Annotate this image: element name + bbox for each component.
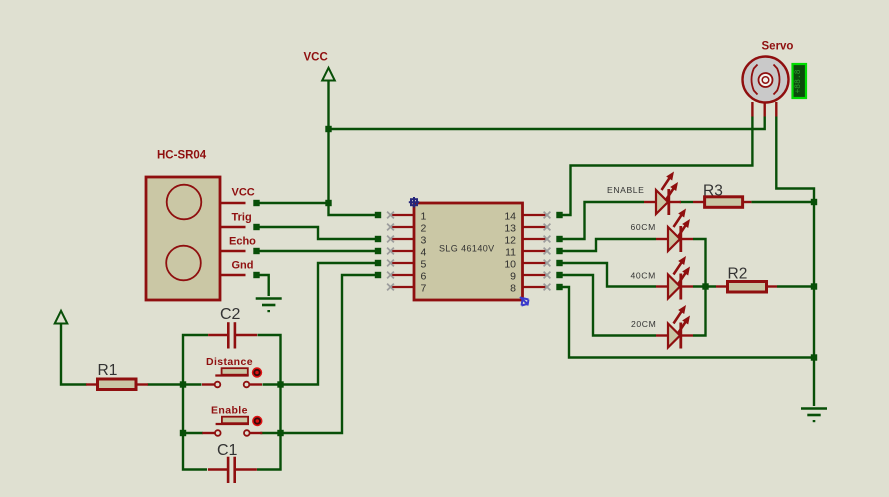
svg-text:R3: R3 [703,183,723,200]
svg-text:R1: R1 [98,362,118,379]
svg-text:8: 8 [510,283,516,295]
svg-text:40CM: 40CM [631,271,656,281]
svg-text:12: 12 [504,235,516,247]
svg-text:ENABLE: ENABLE [607,185,645,195]
svg-text:HC-SR04: HC-SR04 [157,150,207,162]
svg-text:R2: R2 [728,266,748,283]
svg-text:Trig: Trig [232,212,252,224]
svg-text:14: 14 [504,211,516,223]
svg-text:5: 5 [421,259,427,271]
svg-text:3: 3 [421,235,427,247]
svg-text:13: 13 [504,223,516,235]
svg-text:Servo: Servo [762,41,794,53]
svg-text:C2: C2 [220,306,241,323]
svg-text:60CM: 60CM [631,222,656,232]
svg-text:Gnd: Gnd [232,260,254,272]
svg-text:C1: C1 [217,442,238,459]
svg-text:11: 11 [505,247,516,259]
svg-text:VCC: VCC [232,187,255,199]
svg-text:VCC: VCC [304,52,328,64]
svg-text:9: 9 [510,271,516,283]
svg-text:10: 10 [504,259,516,271]
svg-text:Distance: Distance [206,356,253,368]
svg-text:1: 1 [421,211,427,223]
svg-text:2: 2 [421,223,427,235]
svg-text:Enable: Enable [211,405,248,417]
svg-text:20CM: 20CM [631,319,656,329]
svg-text:6: 6 [421,271,427,283]
svg-text:Echo: Echo [229,236,256,248]
svg-text:4: 4 [421,247,427,259]
svg-text:7: 7 [421,283,427,295]
svg-text:+88.8: +88.8 [794,69,803,93]
svg-text:SLG 46140V: SLG 46140V [439,244,495,254]
